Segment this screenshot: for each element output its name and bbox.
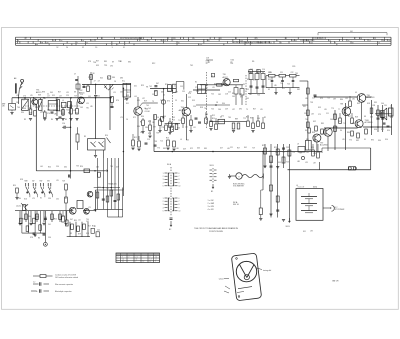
svg-text:10% unless otherwise stated: 10% unless otherwise stated (55, 276, 78, 279)
svg-text:T66: T66 (204, 108, 207, 110)
svg-text:C95: C95 (110, 66, 113, 68)
svg-text:R79: R79 (78, 234, 81, 236)
svg-text:S54: S54 (97, 96, 100, 98)
svg-text:92: 92 (56, 47, 58, 49)
svg-text:T81: T81 (86, 108, 89, 110)
svg-text:C34: C34 (48, 198, 51, 200)
svg-text:DROITWICH BEROMUNSTER: DROITWICH BEROMUNSTER (120, 38, 143, 40)
svg-text:R27: R27 (253, 109, 256, 111)
svg-text:L93: L93 (137, 100, 140, 102)
svg-text:R75: R75 (253, 80, 256, 82)
svg-text:C93: C93 (333, 114, 336, 116)
svg-text:7: 7 (335, 42, 336, 44)
svg-text:T89: T89 (275, 152, 278, 154)
svg-text:T40: T40 (146, 105, 149, 107)
svg-text:R2: R2 (232, 93, 234, 95)
svg-text:L74: L74 (205, 88, 208, 90)
svg-text:7: 7 (77, 42, 78, 44)
svg-text:12: 12 (148, 40, 150, 42)
svg-text:C81: C81 (352, 99, 355, 101)
svg-text:7: 7 (179, 176, 180, 178)
svg-text:T26: T26 (287, 84, 290, 86)
svg-text:L99: L99 (324, 109, 327, 111)
svg-text:L56: L56 (140, 132, 143, 134)
svg-text:AF117: AF117 (179, 109, 184, 112)
svg-text:L19: L19 (56, 180, 59, 182)
svg-text:C12: C12 (188, 97, 191, 99)
svg-text:L76: L76 (212, 87, 215, 89)
svg-text:8: 8 (179, 179, 180, 181)
svg-text:S96: S96 (374, 129, 377, 131)
svg-text:S91: S91 (126, 103, 129, 105)
svg-text:R29: R29 (221, 84, 224, 86)
svg-text:S85: S85 (163, 148, 166, 150)
svg-text:R24: R24 (13, 185, 16, 187)
svg-text:L74: L74 (113, 92, 116, 94)
svg-text:T53: T53 (286, 162, 289, 164)
svg-text:T38: T38 (310, 102, 313, 104)
svg-text:R21: R21 (247, 79, 250, 81)
svg-text:C11: C11 (174, 86, 177, 88)
svg-text:L37: L37 (142, 98, 145, 100)
svg-text:L2: L2 (44, 98, 46, 100)
svg-text:L73: L73 (88, 207, 91, 209)
svg-text:THE CIRCUIT DIAGRAM HAS BEEN D: THE CIRCUIT DIAGRAM HAS BEEN DRAWN IN (194, 227, 238, 230)
svg-text:T98: T98 (154, 141, 157, 143)
svg-text:D38: D38 (35, 107, 38, 109)
svg-text:EXT POWER: EXT POWER (334, 209, 345, 211)
svg-text:6: 6 (277, 40, 278, 42)
svg-text:T59: T59 (74, 96, 77, 98)
svg-text:7: 7 (355, 38, 356, 40)
svg-text:4.7: 4.7 (94, 226, 96, 228)
svg-text:D76: D76 (168, 91, 171, 93)
svg-text:41: 41 (220, 38, 222, 40)
svg-text:27: 27 (94, 81, 96, 83)
svg-text:C41: C41 (48, 224, 51, 226)
svg-text:T38: T38 (156, 133, 159, 135)
svg-text:D1: D1 (364, 139, 366, 141)
svg-text:60: 60 (295, 40, 297, 42)
svg-text:S90: S90 (387, 130, 390, 132)
svg-text:D40: D40 (197, 148, 200, 150)
svg-text:100: 100 (199, 45, 202, 47)
svg-text:D26: D26 (177, 128, 180, 130)
svg-text:S82: S82 (128, 62, 131, 64)
svg-text:9: 9 (168, 38, 169, 40)
svg-text:S98: S98 (390, 117, 393, 119)
svg-text:L5: L5 (41, 111, 43, 113)
svg-text:52: 52 (318, 38, 320, 40)
svg-text:R33: R33 (250, 118, 253, 120)
svg-text:L17: L17 (47, 96, 50, 98)
svg-text:L32: L32 (73, 110, 76, 112)
svg-text:10: 10 (179, 186, 181, 188)
svg-text:31: 31 (123, 47, 125, 49)
svg-text:D69: D69 (50, 92, 53, 94)
svg-text:S70: S70 (167, 101, 170, 103)
svg-text:R14: R14 (148, 121, 151, 123)
svg-text:R15: R15 (246, 117, 249, 119)
svg-text:S53: S53 (318, 107, 321, 109)
svg-text:6: 6 (18, 40, 19, 42)
svg-text:3: 3 (163, 204, 164, 206)
svg-text:D25: D25 (52, 95, 55, 97)
svg-text:4p7: 4p7 (206, 63, 209, 65)
svg-text:T84: T84 (228, 117, 231, 119)
svg-text:GM 5H: GM 5H (332, 281, 339, 283)
svg-text:D4: D4 (340, 130, 342, 132)
svg-text:R50: R50 (48, 167, 51, 169)
svg-text:C42: C42 (86, 221, 89, 223)
svg-text:S46: S46 (29, 113, 32, 115)
svg-text:L39: L39 (313, 163, 316, 165)
svg-text:S8: S8 (74, 92, 76, 94)
svg-text:AF115: AF115 (36, 91, 41, 94)
svg-text:S1a: S1a (122, 81, 125, 83)
svg-text:T14: T14 (160, 141, 163, 143)
svg-text:T76: T76 (157, 148, 160, 150)
svg-text:R96: R96 (312, 132, 315, 134)
svg-text:S11: S11 (98, 187, 101, 189)
svg-text:T48: T48 (62, 181, 65, 183)
svg-text:5: 5 (117, 45, 118, 47)
svg-text:T94: T94 (305, 119, 308, 121)
svg-text:R34: R34 (141, 116, 144, 118)
svg-text:R13: R13 (166, 138, 169, 140)
svg-text:L93: L93 (310, 231, 313, 233)
svg-text:T42: T42 (149, 86, 152, 88)
svg-text:C44: C44 (330, 119, 333, 121)
svg-text:AF117: AF117 (223, 76, 228, 79)
svg-text:T26: T26 (257, 95, 260, 97)
svg-text:T54: T54 (66, 110, 69, 112)
svg-text:C18: C18 (206, 58, 209, 60)
svg-text:2 = MW: 2 = MW (208, 203, 215, 205)
svg-text:C69: C69 (232, 96, 235, 98)
svg-text:75: 75 (256, 38, 258, 40)
svg-text:L85: L85 (90, 106, 93, 108)
svg-text:R25: R25 (22, 219, 25, 221)
svg-text:C64: C64 (218, 109, 221, 111)
svg-text:S51: S51 (303, 231, 306, 233)
svg-text:S38: S38 (205, 114, 208, 116)
svg-text:C76: C76 (23, 96, 26, 98)
svg-text:R75: R75 (165, 84, 168, 86)
svg-text:D10: D10 (385, 139, 388, 141)
svg-text:20: 20 (95, 47, 97, 49)
svg-text:D64: D64 (163, 116, 166, 118)
svg-text:C14: C14 (80, 94, 83, 96)
svg-text:C55: C55 (180, 86, 183, 88)
svg-text:S41: S41 (244, 147, 247, 149)
svg-text:T16: T16 (156, 117, 159, 119)
svg-text:S22: S22 (282, 88, 285, 90)
svg-text:5: 5 (163, 186, 164, 188)
svg-text:2.1: 2.1 (122, 261, 124, 263)
svg-text:R5: R5 (65, 119, 67, 121)
svg-text:R86: R86 (340, 99, 343, 101)
svg-text:12: 12 (150, 261, 152, 263)
svg-text:S1: S1 (120, 61, 122, 63)
svg-text:C61: C61 (120, 92, 123, 94)
svg-text:D54: D54 (222, 103, 225, 105)
svg-text:S33: S33 (96, 65, 99, 67)
svg-text:C91: C91 (88, 96, 91, 98)
svg-text:T9: T9 (152, 101, 154, 103)
svg-text:S8: S8 (364, 116, 366, 118)
svg-text:B1: B1 (211, 191, 213, 193)
svg-text:L26: L26 (106, 188, 109, 190)
svg-text:L3: L3 (55, 99, 57, 101)
svg-text:T69: T69 (299, 153, 302, 155)
svg-text:wheel: wheel (219, 278, 224, 280)
svg-text:L8: L8 (297, 144, 299, 146)
svg-text:C44: C44 (97, 230, 100, 232)
svg-text:R14: R14 (212, 118, 215, 120)
svg-text:S85: S85 (204, 148, 207, 150)
svg-text:2.2: 2.2 (33, 282, 35, 284)
svg-text:D72: D72 (190, 148, 193, 150)
svg-text:D94: D94 (21, 112, 24, 114)
svg-text:C96: C96 (48, 237, 51, 239)
svg-text:T64: T64 (17, 107, 20, 109)
svg-text:3 = KW: 3 = KW (208, 206, 214, 208)
svg-text:T29: T29 (104, 65, 107, 67)
svg-text:R85: R85 (104, 61, 107, 63)
svg-text:LW: LW (2, 106, 5, 108)
svg-text:C66: C66 (313, 140, 316, 142)
svg-text:L91: L91 (193, 127, 196, 129)
svg-text:120: 120 (313, 38, 316, 40)
svg-text:C45: C45 (246, 98, 249, 100)
svg-text:R26: R26 (54, 219, 57, 221)
svg-text:C41: C41 (47, 110, 50, 112)
svg-text:R28: R28 (355, 117, 358, 119)
svg-text:L5: L5 (163, 95, 165, 97)
svg-text:C32: C32 (56, 199, 59, 201)
svg-text:C77: C77 (384, 117, 387, 119)
svg-text:1: 1 (163, 173, 164, 175)
svg-text:L11: L11 (16, 95, 19, 97)
svg-text:C14: C14 (62, 123, 65, 125)
svg-text:R3: R3 (70, 233, 72, 235)
svg-text:C76: C76 (47, 113, 50, 115)
svg-text:TS6 AC125: TS6 AC125 (108, 183, 117, 186)
svg-text:0.5: 0.5 (355, 92, 357, 94)
svg-text:2: 2 (163, 176, 164, 178)
svg-text:T72: T72 (243, 118, 246, 120)
svg-text:R10: R10 (105, 135, 108, 137)
svg-text:L73: L73 (120, 117, 123, 119)
svg-text:34: 34 (136, 259, 138, 261)
svg-text:75: 75 (348, 40, 350, 42)
svg-text:R9: R9 (84, 136, 86, 138)
svg-text:13: 13 (369, 40, 371, 42)
svg-text:S48: S48 (23, 108, 26, 110)
svg-text:4.7k log: 4.7k log (22, 204, 28, 206)
svg-text:(R20): (R20) (313, 186, 317, 188)
svg-text:C2: C2 (31, 101, 33, 103)
svg-text:KW: KW (40, 181, 43, 183)
svg-text:C29: C29 (312, 98, 315, 100)
svg-text:TS4: TS4 (181, 107, 184, 109)
svg-text:3: 3 (108, 78, 109, 80)
svg-text:R6: R6 (93, 73, 95, 75)
svg-text:T74: T74 (349, 140, 352, 142)
svg-text:R98: R98 (42, 92, 45, 94)
svg-text:D86: D86 (112, 77, 115, 79)
svg-text:C10: C10 (262, 69, 265, 71)
svg-text:L53: L53 (305, 162, 308, 164)
svg-text:L62: L62 (268, 151, 271, 153)
svg-text:C6: C6 (126, 119, 128, 121)
svg-text:C66: C66 (16, 102, 19, 104)
svg-text:R12: R12 (134, 137, 137, 139)
svg-text:D73: D73 (320, 98, 323, 100)
svg-text:T93: T93 (282, 152, 285, 154)
svg-text:C13: C13 (172, 120, 175, 122)
svg-text:C6: C6 (114, 81, 116, 83)
svg-text:3 x 1.5 V: 3 x 1.5 V (298, 186, 306, 188)
svg-text:52: 52 (270, 42, 272, 44)
svg-text:D12: D12 (116, 167, 119, 169)
svg-text:1k2: 1k2 (148, 108, 151, 110)
svg-text:R17: R17 (88, 226, 91, 228)
svg-text:D40: D40 (137, 126, 140, 128)
svg-text:L73: L73 (75, 113, 78, 115)
svg-text:D55: D55 (53, 110, 56, 112)
svg-text:S28: S28 (20, 179, 23, 181)
svg-text:R89: R89 (235, 119, 238, 121)
svg-text:9: 9 (179, 207, 180, 209)
svg-text:S32: S32 (313, 121, 316, 123)
svg-text:L4: L4 (62, 100, 64, 102)
svg-text:Film ceramic capacitor: Film ceramic capacitor (55, 283, 73, 286)
svg-text:S9: S9 (112, 62, 114, 64)
svg-text:T29: T29 (252, 148, 255, 150)
svg-text:60: 60 (208, 40, 210, 42)
svg-text:S1: S1 (195, 82, 197, 84)
svg-text:T54: T54 (211, 109, 214, 111)
svg-text:R2: R2 (264, 117, 266, 119)
svg-text:4 = GR: 4 = GR (208, 209, 215, 211)
svg-text:R92: R92 (127, 92, 130, 94)
svg-text:T66: T66 (160, 100, 163, 102)
svg-text:8: 8 (179, 204, 180, 206)
svg-text:4: 4 (163, 182, 164, 184)
svg-text:10: 10 (352, 42, 354, 44)
svg-text:9: 9 (236, 38, 237, 40)
svg-text:L74: L74 (86, 103, 89, 105)
svg-text:D19: D19 (192, 100, 195, 102)
svg-text:1.4: 1.4 (155, 256, 157, 258)
svg-text:R85: R85 (321, 123, 324, 125)
svg-text:C50: C50 (193, 106, 196, 108)
svg-text:C39: C39 (292, 66, 295, 68)
svg-text:S79: S79 (62, 216, 65, 218)
svg-text:C75: C75 (196, 91, 199, 93)
svg-text:S1: S1 (40, 198, 42, 200)
svg-text:C29: C29 (66, 95, 69, 97)
svg-text:R12: R12 (212, 115, 215, 117)
svg-text:S9: S9 (268, 89, 270, 91)
svg-text:R27: R27 (58, 92, 61, 94)
svg-text:R67: R67 (154, 91, 157, 93)
svg-text:T33: T33 (76, 166, 79, 168)
svg-text:6: 6 (179, 198, 180, 200)
svg-text:88: 88 (36, 45, 38, 47)
svg-text:7: 7 (26, 38, 27, 40)
svg-text:L57: L57 (59, 96, 62, 98)
svg-text:1.4: 1.4 (122, 259, 124, 261)
svg-text:8: 8 (286, 38, 287, 40)
svg-text:C49: C49 (250, 69, 253, 71)
svg-text:R27: R27 (237, 148, 240, 150)
svg-text:C30: C30 (384, 105, 387, 107)
svg-text:R3: R3 (24, 119, 26, 121)
svg-text:S25: S25 (256, 70, 259, 72)
svg-text:R72: R72 (352, 123, 355, 125)
svg-text:3: 3 (163, 179, 164, 181)
svg-text:L11: L11 (78, 220, 81, 222)
svg-text:D21: D21 (134, 86, 137, 88)
svg-text:R27: R27 (262, 145, 265, 147)
svg-text:2: 2 (212, 75, 213, 77)
svg-text:AC187/01: AC187/01 (367, 96, 375, 99)
svg-text:C82: C82 (218, 94, 221, 96)
svg-text:10: 10 (91, 40, 93, 42)
svg-text:L95: L95 (305, 98, 308, 100)
svg-text:145: 145 (321, 38, 324, 40)
svg-text:9: 9 (179, 182, 180, 184)
svg-text:C21: C21 (230, 147, 233, 149)
svg-text:T78: T78 (161, 127, 164, 129)
svg-text:T20: T20 (327, 98, 330, 100)
svg-text:R58: R58 (200, 107, 203, 109)
svg-text:T90: T90 (86, 219, 89, 221)
svg-text:1.4: 1.4 (150, 259, 152, 261)
svg-text:T19: T19 (178, 120, 181, 122)
svg-text:S82: S82 (356, 140, 359, 142)
svg-text:D15: D15 (268, 79, 271, 81)
svg-text:R8: R8 (146, 87, 148, 89)
svg-text:12: 12 (143, 261, 145, 263)
svg-text:D86: D86 (120, 78, 123, 80)
svg-text:L85: L85 (54, 114, 57, 116)
svg-text:1n: 1n (231, 62, 233, 64)
svg-text:L34: L34 (306, 152, 309, 154)
svg-text:10: 10 (164, 40, 166, 42)
svg-text:L44: L44 (40, 166, 43, 168)
svg-text:C9: C9 (175, 100, 177, 102)
svg-text:C80: C80 (145, 127, 148, 129)
svg-text:C22: C22 (291, 72, 294, 74)
svg-text:D77: D77 (189, 92, 192, 94)
svg-text:R80: R80 (61, 113, 64, 115)
svg-text:R23: R23 (141, 85, 144, 87)
svg-text:L73: L73 (32, 198, 35, 200)
svg-text:VOLTMETER: VOLTMETER (233, 186, 245, 188)
svg-text:S11: S11 (381, 129, 384, 131)
svg-text:D67: D67 (156, 83, 159, 85)
svg-text:C89: C89 (333, 99, 336, 101)
svg-text:R31: R31 (373, 105, 376, 107)
svg-text:S3: S3 (214, 84, 216, 86)
svg-text:D17: D17 (348, 116, 351, 118)
svg-text:L40: L40 (185, 127, 188, 129)
svg-text:R80: R80 (28, 216, 31, 218)
